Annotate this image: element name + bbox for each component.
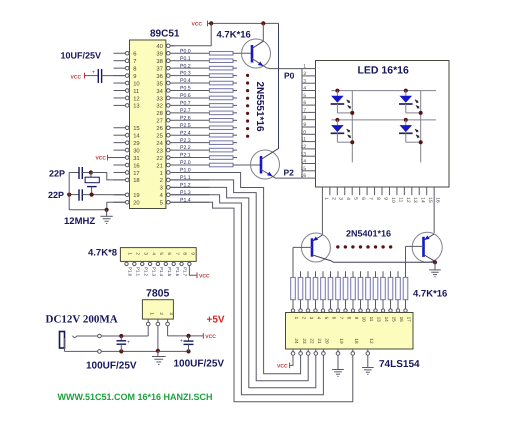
svg-text:7805: 7805 — [146, 288, 170, 300]
svg-text:24: 24 — [294, 338, 299, 344]
svg-text:18: 18 — [133, 177, 139, 184]
svg-text:4: 4 — [303, 86, 306, 92]
svg-text:+5V: +5V — [207, 315, 225, 326]
svg-text:2N5551*16: 2N5551*16 — [254, 82, 265, 132]
svg-text:10UF/25V: 10UF/25V — [61, 51, 102, 61]
svg-text:15: 15 — [301, 166, 307, 172]
svg-text:3: 3 — [160, 185, 163, 192]
svg-text:6: 6 — [133, 51, 136, 58]
svg-text:14: 14 — [420, 197, 426, 203]
svg-text:23: 23 — [302, 338, 307, 344]
svg-text:10: 10 — [301, 129, 307, 135]
svg-text:38: 38 — [156, 58, 162, 65]
svg-text:19: 19 — [339, 338, 344, 344]
svg-text:33: 33 — [156, 95, 162, 102]
svg-text:7: 7 — [175, 252, 180, 255]
svg-text:P1.2: P1.2 — [143, 267, 148, 277]
svg-text:17: 17 — [133, 171, 139, 177]
svg-text:2: 2 — [160, 177, 163, 184]
svg-text:13: 13 — [377, 317, 382, 323]
svg-text:100UF/25V: 100UF/25V — [174, 359, 225, 370]
svg-text:VCC: VCC — [277, 363, 288, 369]
svg-text:4: 4 — [317, 317, 322, 320]
svg-text:16: 16 — [399, 317, 404, 323]
svg-text:28: 28 — [156, 110, 162, 117]
svg-text:P1.4: P1.4 — [159, 267, 164, 277]
svg-text:VCC: VCC — [205, 334, 216, 340]
svg-text:12: 12 — [369, 338, 374, 344]
svg-text:7: 7 — [368, 197, 374, 200]
svg-text:10: 10 — [362, 317, 367, 323]
svg-text:LED 16*16: LED 16*16 — [358, 65, 410, 77]
svg-text:5: 5 — [159, 252, 164, 255]
svg-text:40: 40 — [156, 43, 162, 50]
svg-text:12: 12 — [133, 95, 139, 102]
svg-text:4.7K*8: 4.7K*8 — [88, 248, 117, 259]
svg-text:18: 18 — [354, 338, 359, 344]
svg-text:6: 6 — [303, 100, 306, 106]
svg-text:3: 3 — [309, 317, 314, 320]
svg-text:8: 8 — [347, 317, 352, 320]
svg-text:19: 19 — [133, 192, 139, 199]
svg-text:12MHZ: 12MHZ — [64, 216, 95, 227]
svg-text:6: 6 — [167, 252, 172, 255]
svg-text:DC12V 200MA: DC12V 200MA — [46, 314, 118, 326]
svg-text:3: 3 — [169, 312, 174, 315]
svg-text:26: 26 — [156, 125, 162, 132]
svg-text:8: 8 — [133, 65, 136, 72]
svg-text:22P: 22P — [48, 190, 64, 200]
svg-text:4: 4 — [151, 252, 156, 255]
svg-text:31: 31 — [133, 155, 139, 162]
svg-text:15: 15 — [392, 317, 397, 323]
svg-text:100UF/25V: 100UF/25V — [86, 361, 137, 372]
svg-text:VCC: VCC — [71, 74, 82, 80]
svg-text:30: 30 — [133, 147, 139, 154]
svg-text:7: 7 — [303, 108, 306, 114]
svg-text:32: 32 — [156, 103, 162, 110]
svg-text:5: 5 — [324, 317, 329, 320]
svg-text:2: 2 — [330, 197, 336, 200]
svg-text:74LS154: 74LS154 — [379, 359, 420, 370]
svg-text:15: 15 — [133, 126, 139, 132]
svg-text:2: 2 — [302, 317, 307, 320]
svg-text:P1.5: P1.5 — [167, 267, 172, 277]
svg-text:VCC: VCC — [192, 22, 203, 28]
svg-text:15: 15 — [427, 197, 433, 203]
svg-text:36: 36 — [156, 73, 162, 80]
svg-text:4.7K*16: 4.7K*16 — [413, 289, 447, 300]
svg-text:9: 9 — [382, 197, 388, 200]
svg-text:VCC: VCC — [95, 156, 106, 162]
svg-text:37: 37 — [156, 65, 162, 72]
svg-text:2: 2 — [159, 312, 164, 315]
svg-text:29: 29 — [133, 140, 139, 147]
svg-text:7: 7 — [133, 59, 136, 65]
svg-text:12: 12 — [405, 197, 411, 203]
svg-text:P1.7: P1.7 — [183, 267, 188, 277]
svg-text:1: 1 — [294, 317, 299, 320]
svg-text:3: 3 — [338, 197, 344, 200]
svg-text:22P: 22P — [49, 169, 65, 179]
svg-text:6: 6 — [360, 197, 366, 200]
svg-text:9: 9 — [303, 122, 306, 128]
svg-text:3: 3 — [143, 252, 148, 255]
svg-text:11: 11 — [301, 137, 306, 143]
svg-text:16: 16 — [301, 173, 307, 179]
svg-text:10: 10 — [133, 80, 139, 87]
svg-text:21: 21 — [156, 162, 162, 169]
svg-text:P0: P0 — [284, 71, 295, 81]
svg-text:20: 20 — [325, 338, 330, 344]
svg-text:16: 16 — [435, 197, 441, 203]
svg-text:P2: P2 — [284, 167, 295, 177]
svg-text:21: 21 — [317, 338, 322, 344]
svg-text:11: 11 — [369, 317, 374, 322]
svg-text:1: 1 — [323, 197, 329, 200]
svg-text:24: 24 — [156, 140, 163, 147]
svg-text:13: 13 — [412, 197, 418, 203]
svg-text:13: 13 — [301, 151, 307, 157]
svg-text:P1.3: P1.3 — [151, 267, 156, 277]
svg-text:14: 14 — [133, 134, 140, 140]
svg-text:2: 2 — [303, 71, 306, 77]
svg-text:1: 1 — [128, 252, 133, 255]
svg-text:9: 9 — [133, 73, 136, 80]
svg-text:2N5401*16: 2N5401*16 — [346, 229, 391, 239]
svg-text:7: 7 — [339, 317, 344, 320]
svg-text:11: 11 — [397, 197, 403, 202]
svg-text:20: 20 — [133, 200, 139, 207]
svg-text:14: 14 — [301, 159, 307, 165]
svg-text:13: 13 — [133, 103, 139, 110]
svg-text:35: 35 — [156, 80, 162, 87]
svg-text:6: 6 — [332, 317, 337, 320]
svg-text:WWW.51C51.COM 16*16 HANZI.SCH: WWW.51C51.COM 16*16 HANZI.SCH — [58, 392, 213, 402]
svg-text:16: 16 — [133, 162, 139, 169]
svg-text:17: 17 — [407, 317, 412, 323]
svg-text:8: 8 — [375, 197, 381, 200]
svg-text:3: 3 — [303, 78, 306, 84]
svg-text:4.7K*16: 4.7K*16 — [217, 30, 251, 41]
svg-text:P1.1: P1.1 — [136, 267, 141, 277]
svg-text:P1.0: P1.0 — [128, 267, 133, 277]
svg-text:5: 5 — [353, 197, 359, 200]
svg-text:8: 8 — [303, 115, 306, 121]
svg-text:P1.6: P1.6 — [175, 267, 180, 277]
svg-text:+: + — [92, 70, 95, 76]
svg-text:27: 27 — [156, 118, 162, 125]
svg-text:8: 8 — [183, 252, 188, 255]
svg-text:22: 22 — [309, 338, 314, 344]
svg-text:1: 1 — [160, 171, 163, 177]
svg-text:VCC: VCC — [199, 273, 210, 279]
svg-text:10: 10 — [390, 197, 396, 203]
svg-text:9: 9 — [191, 252, 196, 255]
svg-text:1: 1 — [149, 312, 154, 315]
svg-text:+: + — [127, 340, 130, 346]
svg-text:+: + — [180, 338, 183, 344]
svg-text:1: 1 — [303, 64, 306, 70]
svg-text:22: 22 — [156, 155, 162, 162]
svg-text:34: 34 — [156, 88, 163, 95]
svg-text:39: 39 — [156, 51, 162, 58]
svg-text:5: 5 — [160, 201, 163, 207]
svg-text:4: 4 — [345, 197, 351, 200]
svg-text:89C51: 89C51 — [150, 29, 180, 40]
svg-text:9: 9 — [354, 317, 359, 320]
svg-text:5: 5 — [303, 93, 306, 99]
svg-text:11: 11 — [133, 89, 139, 95]
svg-text:25: 25 — [156, 133, 162, 140]
svg-text:14: 14 — [384, 317, 389, 323]
svg-text:12: 12 — [301, 144, 307, 150]
svg-text:2: 2 — [136, 252, 141, 255]
svg-text:23: 23 — [156, 147, 162, 154]
